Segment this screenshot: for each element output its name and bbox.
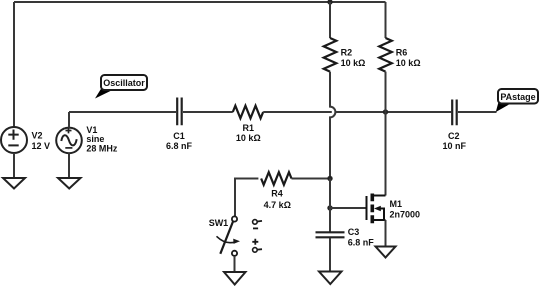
ground (SW1)	[224, 272, 246, 285]
voltage source V1 (sine)	[56, 128, 82, 154]
voltage source V2	[1, 127, 27, 153]
wire V1 to C1	[69, 111, 176, 113]
net tag Oscillator	[95, 75, 147, 99]
wire gate	[330, 207, 366, 209]
svg-text:C1: C1	[173, 131, 185, 141]
switch SW1	[217, 216, 241, 256]
label R1 value	[236, 123, 261, 143]
label R6 value	[396, 48, 421, 69]
svg-text:M1: M1	[390, 199, 403, 209]
node top-rail/R2 junction	[327, 0, 332, 5]
wire M1 source to ground	[385, 220, 387, 247]
svg-text:R4: R4	[271, 189, 283, 199]
wire C2 to PAstage	[458, 111, 497, 113]
svg-text:R1: R1	[243, 123, 255, 133]
svg-text:SW1: SW1	[209, 218, 229, 228]
wire R1 to hop	[263, 111, 332, 113]
capacitor C2	[452, 100, 457, 126]
ground (V1)	[58, 178, 81, 189]
wire R6 to M1 drain	[385, 72, 387, 196]
svg-text:10 kΩ: 10 kΩ	[341, 58, 366, 68]
node R4 / vertical junction	[327, 176, 332, 181]
capacitor C1	[177, 98, 182, 126]
switch SW1 actuation terminals	[252, 220, 262, 253]
resistor R4	[261, 172, 291, 185]
wire C3 to ground	[329, 238, 331, 272]
wire SW1 to ground	[234, 256, 236, 272]
svg-text:6.8 nF: 6.8 nF	[348, 238, 375, 248]
svg-text:10 kΩ: 10 kΩ	[236, 133, 261, 143]
wire top rail	[14, 1, 386, 3]
svg-text:R6: R6	[396, 48, 408, 58]
wire hop to C2 (through R6 node)	[336, 111, 451, 113]
svg-text:PAstage: PAstage	[500, 92, 535, 102]
wire V2 to ground	[13, 153, 15, 178]
net tag PAstage	[496, 89, 538, 112]
label R4 value	[264, 189, 291, 211]
wire C1 to R1	[183, 111, 233, 113]
wire left vertical (V2 to top rail)	[13, 2, 15, 128]
svg-text:28 MHz: 28 MHz	[86, 144, 118, 154]
wire V1 top lead	[68, 112, 70, 128]
wire R4 to SW1	[235, 179, 258, 217]
svg-text:C3: C3	[348, 227, 360, 237]
ground (V2)	[3, 178, 25, 189]
resistor R6	[379, 2, 392, 72]
svg-text:10 kΩ: 10 kΩ	[396, 58, 421, 68]
svg-text:6.8 nF: 6.8 nF	[166, 141, 193, 151]
wire V1 to ground	[68, 153, 70, 178]
label C2 value	[443, 131, 467, 151]
svg-text:V2: V2	[32, 131, 43, 141]
wire R2 bottom with hop over main wire	[330, 72, 335, 179]
svg-text:Oscillator: Oscillator	[103, 78, 145, 88]
label C1 value	[166, 131, 193, 151]
capacitor C3	[316, 232, 345, 237]
label V1 value	[86, 125, 118, 153]
wire R4 node to vertical	[292, 178, 331, 180]
svg-text:12 V: 12 V	[32, 141, 51, 151]
resistor R1	[233, 106, 263, 119]
node main-wire/R6 junction	[383, 109, 388, 114]
svg-text:2n7000: 2n7000	[390, 210, 421, 220]
label R2 value	[341, 48, 366, 69]
node gate-wire / vertical junction	[327, 205, 332, 210]
wire vertical to C3	[329, 179, 331, 232]
resistor R2	[324, 2, 337, 72]
label M1 value	[390, 199, 421, 220]
svg-text:10 nF: 10 nF	[443, 141, 467, 151]
transistor M1 (2n7000 NMOS)	[367, 194, 386, 224]
svg-text:4.7 kΩ: 4.7 kΩ	[264, 200, 291, 210]
label V2 value	[32, 131, 51, 151]
svg-text:R2: R2	[341, 48, 353, 58]
ground (C3)	[319, 272, 342, 285]
svg-text:C2: C2	[448, 131, 460, 141]
ground (M1)	[376, 247, 396, 258]
label C3 value	[348, 227, 375, 248]
